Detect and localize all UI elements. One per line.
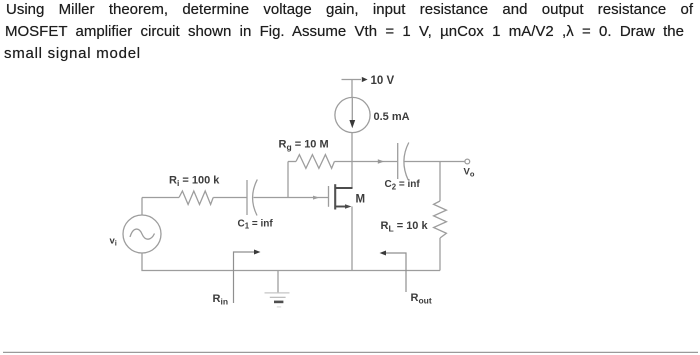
ground bar 3: [274, 301, 283, 304]
svg-text:Ri = 100 k: Ri = 100 k: [169, 175, 220, 189]
wire Rg left vertical to gate node: [287, 162, 289, 198]
svg-text:Vo: Vo: [464, 167, 475, 179]
svg-text:C1 = inf: C1 = inf: [238, 219, 274, 231]
svg-text:M: M: [356, 194, 366, 206]
current source I1 circle: [335, 97, 370, 132]
mosfet M drain stroke: [335, 187, 352, 189]
drain wire flow arrowhead: [378, 159, 385, 163]
source vi circle: [123, 215, 161, 253]
wire drain node horizontal: [334, 161, 397, 163]
Rout probe line: [386, 253, 406, 292]
wire current source to drain node: [351, 133, 353, 162]
current source arrowhead: [349, 120, 355, 128]
ground bar 2: [270, 296, 286, 298]
svg-text:Rg = 10 M: Rg = 10 M: [279, 139, 329, 153]
capacitor C1 left plate: [246, 180, 248, 215]
mosfet M source stroke: [335, 206, 345, 208]
Rin probe line: [234, 252, 255, 303]
wire vi top to input: [141, 198, 143, 216]
wire Rg left stub: [288, 161, 296, 163]
mosfet M gate bar: [328, 186, 330, 207]
Rout probe arrowhead: [380, 251, 387, 256]
svg-text:vi: vi: [110, 236, 117, 248]
current source internal wire: [351, 98, 353, 122]
problem statement line 3: [4, 45, 141, 62]
bottom ground rail: [142, 253, 440, 271]
svg-text:C2 = inf: C2 = inf: [385, 179, 421, 191]
wire supply to current source: [351, 80, 353, 98]
svg-text:Rin: Rin: [213, 293, 229, 307]
resistor Rg zigzag: [296, 155, 334, 169]
mosfet M source arrowhead: [345, 204, 352, 209]
svg-text:0.5 mA: 0.5 mA: [374, 111, 410, 123]
Rin probe arrowhead: [254, 250, 261, 255]
source vi sine wave: [130, 229, 155, 239]
svg-text:RL = 10 k: RL = 10 k: [381, 220, 429, 234]
mosfet M channel bar: [334, 184, 336, 209]
resistor RL zigzag: [434, 201, 447, 238]
problem statement line 1: [6, 1, 693, 18]
supply rail bar +10V: [342, 79, 362, 81]
wire source vertical to rail: [351, 207, 353, 271]
wire output node to RL: [439, 162, 441, 202]
ground bar 1: [265, 292, 290, 294]
wire drain vertical into mosfet: [351, 162, 353, 189]
capacitor C2 right curved plate: [404, 143, 409, 181]
problem statement line 2: [5, 23, 684, 40]
resistor Ri zigzag: [179, 191, 213, 205]
ground stem: [277, 271, 279, 293]
ground bar 4: [277, 306, 281, 308]
wire C2 to output terminal: [405, 161, 466, 163]
capacitor C1 right curved plate: [253, 180, 258, 216]
svg-text:Rout: Rout: [411, 292, 432, 306]
gate wire flow arrowhead: [313, 196, 319, 200]
capacitor C2 left plate: [397, 143, 399, 179]
wire RL to bottom rail: [439, 238, 441, 271]
svg-text:10 V: 10 V: [371, 75, 395, 87]
supply arrowhead: [362, 77, 368, 82]
wire C1 to gate: [254, 197, 329, 199]
wire Ri to C1: [213, 197, 247, 199]
output terminal Vo circle: [465, 159, 470, 164]
wire vi to Ri: [142, 197, 179, 199]
